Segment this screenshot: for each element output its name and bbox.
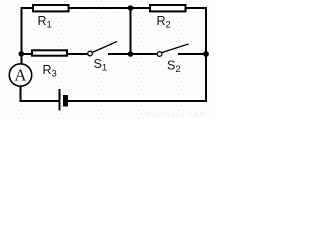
wire: middle row from S2 fixed contact to right border: [178, 53, 206, 55]
node: top junction of branch wire on top wire: [128, 5, 134, 11]
svg-text:maxresto.com: maxresto.com: [144, 110, 207, 119]
wire: left vertical from top-left corner down to ammeter: [21, 7, 23, 64]
resistor R3: [32, 50, 67, 79]
wire: right vertical border: [205, 7, 207, 102]
node: right junction of middle wire on right border: [203, 51, 209, 57]
switch S1: [88, 42, 117, 74]
wire: top horizontal (node between R1/R2 row): [21, 7, 206, 9]
node: left junction of middle wire and left wire: [19, 51, 25, 57]
battery B1 (cell): [60, 89, 69, 111]
wire: middle row between S1 fixed contact and S2 pivot: [108, 53, 161, 55]
wire: centre vertical branch between top wire and middle wire: [130, 8, 132, 54]
svg-text:A: A: [15, 65, 27, 84]
battery long thin plate: [59, 89, 61, 111]
node: middle junction of branch wire on middle wire: [128, 51, 134, 57]
wire: bottom left segment to battery: [20, 100, 59, 102]
battery short thick plate: [63, 95, 68, 107]
wire: ammeter bottom lead down to bottom wire: [20, 86, 22, 101]
switch S2: [157, 44, 188, 75]
wire: middle row left segment through R3 to S1 pivot: [21, 53, 90, 55]
resistor R2: [150, 5, 186, 31]
resistor R1: [33, 5, 69, 31]
wire: bottom right segment from battery to right border: [68, 100, 207, 102]
ammeter A: [9, 64, 31, 86]
